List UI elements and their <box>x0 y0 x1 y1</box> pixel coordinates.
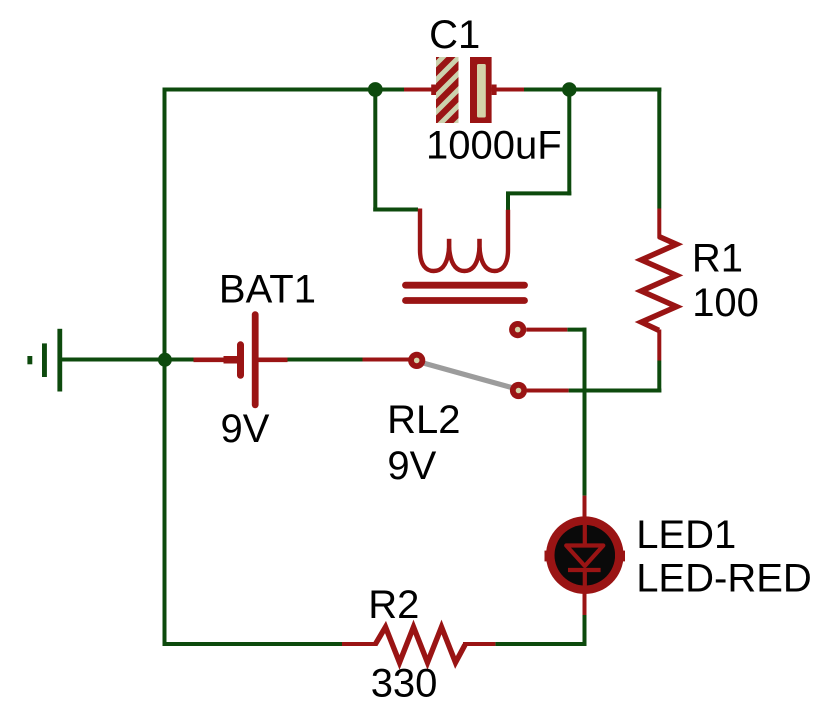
svg-text:9V: 9V <box>221 407 270 451</box>
wire bottom-right horizontal of switch row <box>569 389 662 393</box>
svg-text:BAT1: BAT1 <box>219 268 316 312</box>
wire top-right horizontal <box>523 88 661 92</box>
relay RL2 core bar bottom <box>406 297 525 304</box>
LED1 tab left <box>545 551 555 562</box>
junction dot ground <box>158 353 172 367</box>
resistor R2 zigzag <box>375 627 465 663</box>
LED1 tab right <box>615 551 625 562</box>
wire R1 bottom vertical <box>657 361 661 393</box>
capacitor C1 right plate inner bar <box>477 64 486 118</box>
svg-text:R1: R1 <box>692 236 743 280</box>
resistor R1 pin top <box>657 209 661 239</box>
wire LED bottom vertical <box>583 615 587 646</box>
wire battery to relay <box>287 358 363 362</box>
wire coil left horizontal <box>373 208 418 212</box>
battery BAT1 pin right <box>259 357 288 362</box>
wire coil right horizontal <box>506 191 571 195</box>
svg-text:RL2: RL2 <box>387 398 460 442</box>
relay RL2 bottom contact pin <box>527 389 569 393</box>
capacitor C1 right plate <box>470 57 492 123</box>
svg-text:9V: 9V <box>387 444 436 488</box>
svg-text:LED1: LED1 <box>636 513 736 557</box>
relay RL2 top contact pin <box>526 328 567 332</box>
wire bottom horizontal right <box>495 642 586 646</box>
battery BAT1 pin left <box>194 357 239 362</box>
LED1 triangle <box>566 546 603 567</box>
relay RL2 core bar top <box>406 282 525 289</box>
svg-text:LED-RED: LED-RED <box>636 556 812 600</box>
relay RL2 coil <box>420 209 508 272</box>
svg-text:100: 100 <box>692 281 759 325</box>
battery BAT1 long plate <box>252 311 259 408</box>
capacitor C1 pin left <box>404 88 437 92</box>
wire coil right vertical <box>567 90 571 196</box>
wire coil right stub <box>506 193 510 210</box>
LED1 anode line <box>583 517 587 545</box>
battery BAT1 short plate <box>237 341 244 379</box>
svg-text:1000uF: 1000uF <box>426 124 562 168</box>
resistor R1 zigzag <box>641 237 676 331</box>
wire ground horizontal <box>61 358 194 362</box>
LED1 body inner <box>555 525 616 586</box>
ground <box>27 329 62 392</box>
capacitor C1 pin left nub <box>431 85 436 96</box>
LED1 body ring <box>546 516 624 594</box>
wire bottom horizontal left <box>163 642 343 646</box>
relay RL2 switch arm <box>425 364 513 388</box>
relay RL2 coil cusp spike 2 <box>477 239 482 250</box>
capacitor C1 pin right <box>492 88 524 92</box>
resistor R2 pin right <box>463 642 495 646</box>
junction dot right <box>562 82 577 97</box>
resistor R1 pin bottom <box>657 330 661 361</box>
capacitor C1 left plate <box>436 57 459 123</box>
LED1 pin top <box>583 496 587 520</box>
resistor R2 pin left <box>342 642 377 646</box>
wire relay top contact corner <box>567 328 586 332</box>
battery BAT1 pin left tab <box>224 356 238 364</box>
junction dot left <box>368 82 383 97</box>
LED1 cathode line <box>583 570 587 593</box>
relay RL2 bottom contact <box>510 382 527 399</box>
svg-text:330: 330 <box>371 662 438 706</box>
LED1 pin bottom <box>583 592 587 615</box>
capacitor C1 left plate hatch <box>428 34 466 152</box>
svg-text:C1: C1 <box>429 13 480 57</box>
wire top-left horizontal <box>163 88 405 92</box>
relay RL2 pole contact <box>408 352 425 369</box>
capacitor C1 pin right nub <box>492 85 497 96</box>
relay RL2 pole pin <box>363 358 411 362</box>
svg-text:R2: R2 <box>368 583 419 627</box>
wire middle vertical to LED <box>583 328 587 496</box>
wire R1 top vertical <box>657 88 661 209</box>
relay RL2 top contact <box>509 321 526 338</box>
wire left vertical <box>163 88 167 647</box>
LED1 cathode bar <box>568 568 601 572</box>
relay RL2 coil cusp spike 1 <box>447 239 452 250</box>
wire coil left vertical <box>373 90 377 212</box>
